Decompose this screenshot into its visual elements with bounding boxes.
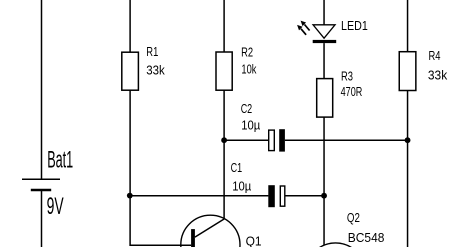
- svg-text:BC548: BC548: [348, 230, 385, 245]
- resistor R4: [399, 52, 416, 91]
- svg-text:470R: 470R: [341, 84, 363, 99]
- node D junction: [405, 137, 411, 143]
- transistor Q1 base bar: [191, 229, 195, 247]
- capacitor C2 positive plate: [269, 130, 275, 151]
- svg-text:Q1: Q1: [246, 234, 262, 247]
- wire R4 bottom: [407, 91, 409, 247]
- wire R1 to node A: [129, 90, 131, 196]
- wire battery top: [41, 0, 43, 179]
- LED1 light arrow lower: [297, 25, 306, 35]
- svg-text:LED1: LED1: [341, 18, 368, 33]
- wire R4 top: [407, 0, 409, 52]
- capacitor C1 negative plate: [268, 185, 275, 207]
- wire LED1 to R3: [323, 43, 325, 79]
- wire node B to capacitor C2: [224, 139, 269, 141]
- svg-text:33k: 33k: [428, 68, 448, 83]
- node E junction: [321, 193, 327, 199]
- resistor R2: [216, 52, 232, 90]
- wire battery bottom: [41, 190, 43, 247]
- LED1 triangle: [313, 25, 335, 38]
- resistor R3: [317, 79, 333, 118]
- svg-text:Bat1: Bat1: [47, 146, 73, 173]
- wire LED1 top: [323, 0, 325, 25]
- node A junction: [127, 193, 133, 199]
- wire node A down and over to Q1 base: [130, 196, 191, 246]
- svg-text:Q2: Q2: [347, 210, 360, 225]
- transistor Q2 body circle: [306, 243, 365, 247]
- svg-text:33k: 33k: [146, 62, 165, 77]
- svg-text:10µ: 10µ: [241, 117, 260, 132]
- svg-text:C2: C2: [241, 101, 253, 116]
- wire R3 to node E: [323, 117, 325, 196]
- svg-text:10µ: 10µ: [232, 179, 251, 194]
- battery Bat1 positive plate: [22, 178, 60, 180]
- wire R2 to Q1 collector: [223, 90, 225, 219]
- transistor Q1 body circle: [181, 215, 240, 247]
- node B junction: [221, 137, 227, 143]
- svg-text:C1: C1: [231, 160, 243, 175]
- svg-text:R3: R3: [341, 68, 353, 83]
- LED1 cathode bar: [313, 40, 337, 43]
- capacitor C1 positive plate: [280, 186, 285, 206]
- transistor Q1 collector diagonal: [195, 219, 224, 237]
- wire C2 to node D: [285, 139, 408, 141]
- svg-text:R2: R2: [241, 44, 253, 59]
- capacitor C2 negative plate: [279, 129, 285, 151]
- battery Bat1 negative plate: [31, 189, 51, 191]
- svg-text:R4: R4: [429, 48, 441, 63]
- resistor R1: [122, 52, 139, 90]
- svg-text:10k: 10k: [241, 62, 256, 77]
- LED1 light arrow upper: [301, 21, 310, 31]
- wire R2 top: [223, 0, 225, 52]
- svg-text:R1: R1: [146, 44, 158, 59]
- wire node A to capacitor C1: [130, 195, 268, 197]
- svg-text:9V: 9V: [47, 193, 64, 220]
- wire node E down to Q2 collector: [323, 196, 325, 246]
- wire C1 to node E: [286, 195, 325, 197]
- wire R1 top: [129, 0, 131, 52]
